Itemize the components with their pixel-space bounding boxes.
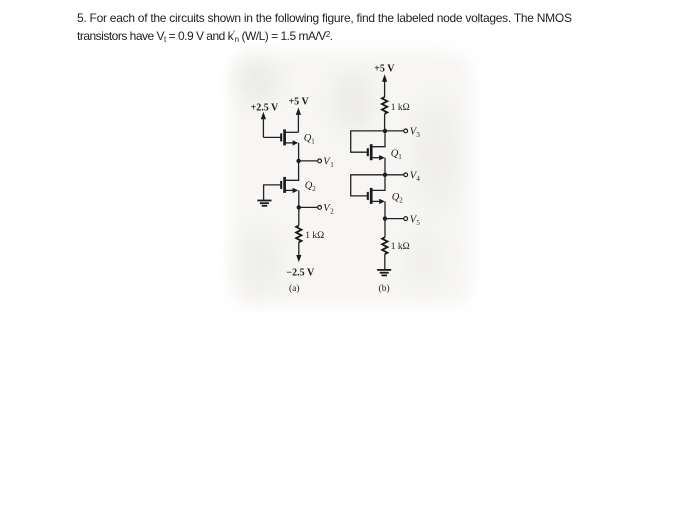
svg-text:1 kΩ: 1 kΩ [391,103,410,113]
wire Q1 source down to node V1 [298,143,300,161]
svg-text:4: 4 [416,175,420,183]
transistor Q2 (a) [281,177,298,193]
svg-text:2: 2 [312,185,316,193]
terminal circle V4 [404,173,408,177]
wire feedback node V3 to Q1 gate [351,131,385,152]
wire feedback node V4 to Q2 gate [351,175,385,196]
svg-text:3: 3 [416,131,420,139]
resistor 1 kOhm (b top) [382,97,387,114]
wire node V2 to terminal [299,206,318,208]
node V5 junction dot [383,216,387,220]
resistor 1 kOhm (b bottom) [382,237,387,254]
svg-text:1: 1 [330,161,334,169]
wire node V5 down to resistor [384,219,386,238]
svg-text:1 kΩ: 1 kΩ [391,242,410,252]
svg-text:+5 V: +5 V [288,97,309,108]
terminal circle V1 [318,159,322,163]
svg-text:1 kΩ: 1 kΩ [305,231,324,241]
wire Q2 gate to ground [264,185,281,200]
wire node V5 to terminal [385,218,404,220]
terminal circle V2 [318,206,322,210]
supply arrow +5 V (b) [382,74,387,97]
terminal circle V3 [404,129,408,133]
node V2 junction dot [297,205,301,209]
wire Q2 source down to node V2 [298,190,300,207]
supply arrow +2.5 V [261,112,266,138]
wire +2.5 V supply to Q1 gate [263,136,280,138]
svg-text:(a): (a) [289,283,300,294]
wire resistor to -2.5 V supply [296,242,301,262]
ground (b) [377,270,391,276]
svg-text:−2.5 V: −2.5 V [286,267,315,278]
resistor 1 kOhm (a) [296,226,301,243]
wire resistor to ground (b) [384,254,386,269]
svg-text:5: 5 [416,219,420,227]
wire node V1 down to Q2 drain [286,161,299,180]
wire node V1 to terminal [299,160,318,162]
transistor Q1 (b) [368,133,385,160]
terminal circle V5 [404,217,408,221]
wire node V3 to terminal [385,130,404,132]
transistor Q2 (b) [368,177,385,204]
svg-text:2: 2 [399,196,403,204]
svg-text:1: 1 [398,153,402,161]
svg-text:+5 V: +5 V [374,64,395,75]
node V1 junction dot [296,159,300,163]
svg-text:(b): (b) [379,283,390,294]
node V4 junction dot [383,173,387,177]
ground (a) [257,201,271,206]
svg-text:2: 2 [330,208,334,216]
wire node V2 down to resistor [298,207,300,225]
wire resistor to node V3 [384,114,386,131]
svg-text:1: 1 [311,138,315,146]
wire Q1 source down to node V4 [384,158,386,175]
supply arrow +5 V (a) [296,108,301,133]
wire Q2 source down to node V5 [384,201,386,218]
svg-text:+2.5 V: +2.5 V [251,103,280,114]
node V3 junction dot [383,129,387,133]
wire Q1 drain to +5 V rail [286,131,299,133]
wire node V4 to terminal [385,174,404,176]
transistor Q1 [281,129,298,145]
